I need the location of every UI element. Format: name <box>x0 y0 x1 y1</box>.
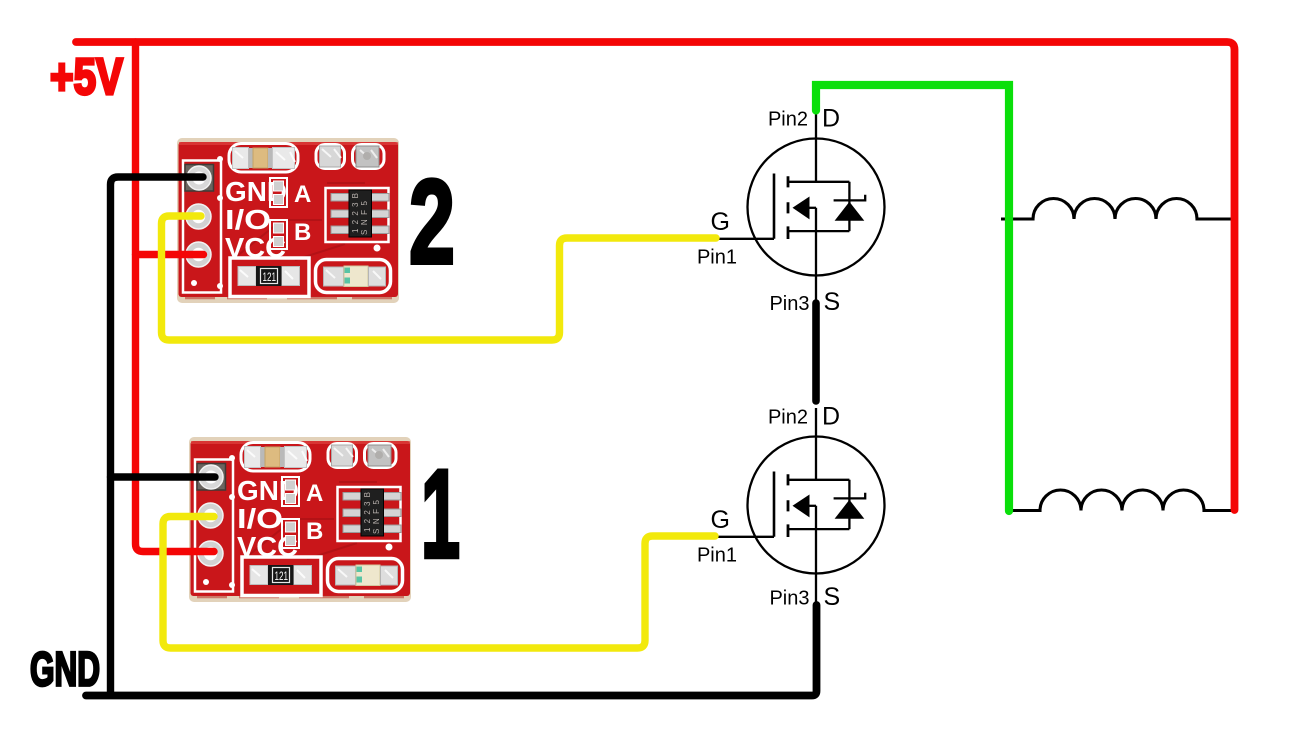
svg-text:Pin1: Pin1 <box>697 247 737 269</box>
svg-text:S: S <box>824 583 841 611</box>
wire green drain Q2 to coils <box>816 85 1009 511</box>
transistor Q1 lower MOSFET <box>717 408 885 602</box>
svg-text:Pin2: Pin2 <box>768 109 808 131</box>
svg-text:GND: GND <box>30 644 100 697</box>
svg-text:+5V: +5V <box>50 48 123 105</box>
wire black GND bottom bus <box>86 605 817 696</box>
svg-text:D: D <box>822 403 840 431</box>
svg-text:Pin3: Pin3 <box>769 293 809 315</box>
svg-text:S: S <box>824 288 841 316</box>
inductor L1 top coil <box>1001 198 1232 219</box>
wire red branch to VCC2 <box>136 251 204 258</box>
svg-text:D: D <box>822 105 840 133</box>
svg-text:G: G <box>711 208 730 236</box>
touch module 2 <box>177 138 399 303</box>
wire yellow module2 to gate Q2 <box>162 216 717 340</box>
wire red left drop to VCC1 <box>136 42 215 552</box>
svg-text:Pin1: Pin1 <box>697 545 737 567</box>
wire black branch to GND1 <box>111 473 216 480</box>
svg-text:2: 2 <box>409 155 455 289</box>
wire +5V red top bus <box>76 42 1235 510</box>
svg-text:Pin3: Pin3 <box>769 588 809 610</box>
wire yellow module1 to gate Q1 <box>163 517 715 649</box>
transistor Q2 upper MOSFET <box>717 110 885 304</box>
inductor L2 bottom coil <box>1011 490 1232 511</box>
svg-text:Pin2: Pin2 <box>768 407 808 429</box>
svg-text:1: 1 <box>421 445 460 584</box>
wire black source-drain link <box>812 303 820 401</box>
svg-text:G: G <box>711 506 730 534</box>
touch module 1 <box>189 437 411 602</box>
wire black GND2 drop <box>111 177 204 695</box>
